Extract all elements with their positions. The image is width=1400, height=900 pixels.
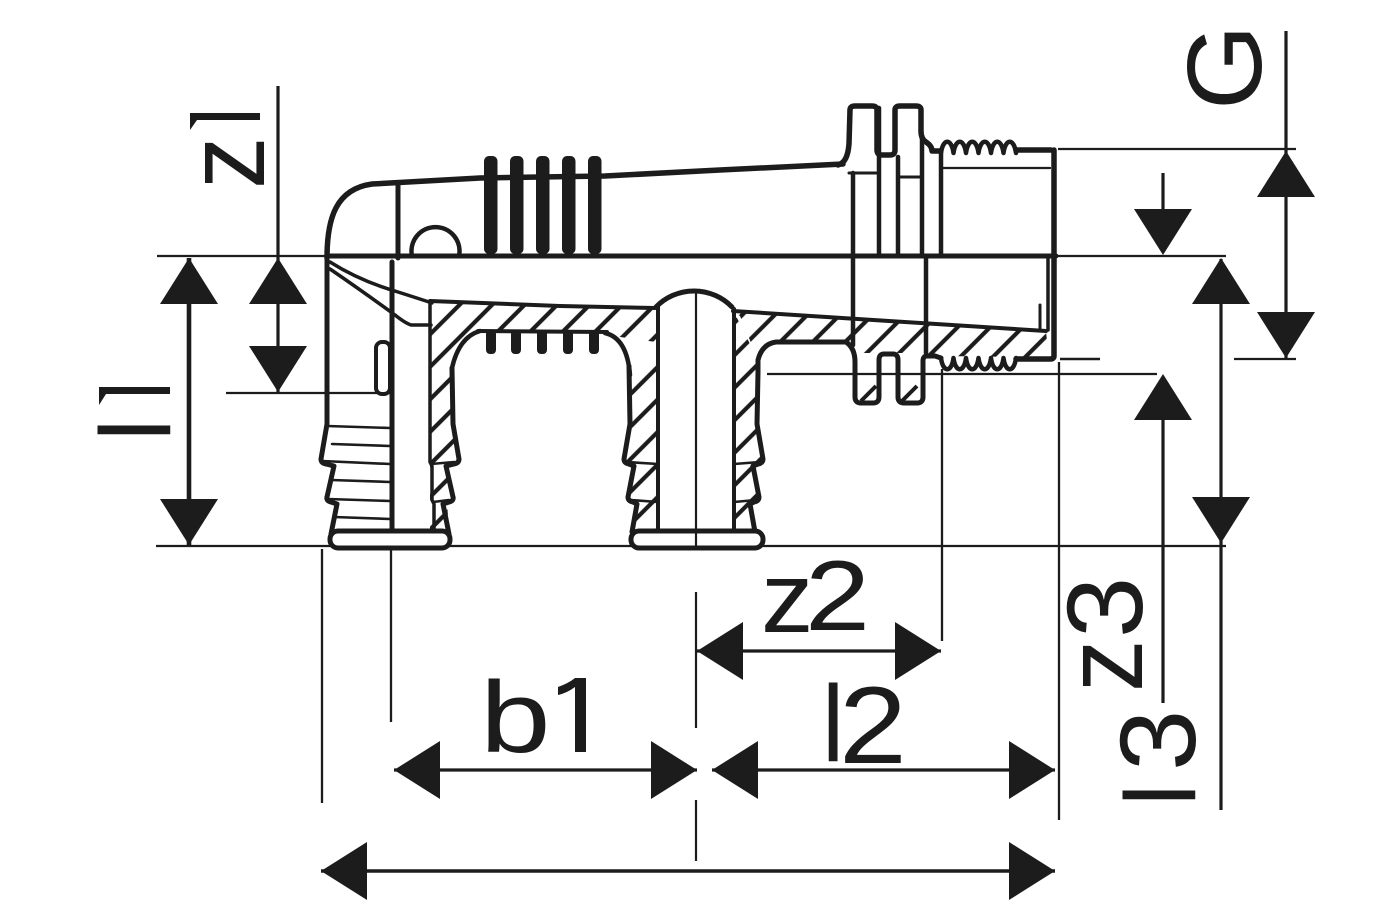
elbow inner transition curve 1 bbox=[330, 262, 432, 303]
body top plate line B thick bbox=[330, 254, 1056, 259]
nut shoulder ledges bbox=[849, 172, 878, 175]
right end edge bbox=[1016, 150, 1054, 359]
z2 dimension line bbox=[697, 649, 941, 652]
extension line B right bbox=[1056, 255, 1226, 257]
overall bottom dimension line bbox=[321, 869, 1055, 873]
left leg bore edge bbox=[430, 304, 434, 532]
teeth to outlet fillet bbox=[605, 333, 630, 375]
left leg barb ring lines bbox=[327, 426, 390, 428]
l3 dimension line bbox=[1219, 259, 1222, 810]
leg inner thick line bbox=[390, 262, 395, 532]
z1 dimension line bbox=[276, 86, 279, 392]
section hatching bbox=[430, 301, 1049, 529]
G arrows bbox=[1257, 151, 1315, 197]
extension line x=942 z2 right bbox=[941, 369, 943, 641]
z2 arrows bbox=[697, 622, 743, 680]
lower castellation outline bbox=[758, 342, 941, 403]
retaining tab bbox=[376, 342, 390, 394]
slot bottom hatch ticks bbox=[861, 386, 917, 401]
extension line x=391 b1 left bbox=[390, 549, 392, 722]
elbow inner transition curve 2 bbox=[330, 269, 431, 325]
union nut prongs bbox=[838, 106, 940, 165]
elbow outer arc and top outline bbox=[327, 164, 843, 258]
bore floor / hatch band top edge bbox=[430, 301, 655, 308]
extension line C bottom reference bbox=[156, 545, 1226, 547]
cavity end step bbox=[1039, 305, 1042, 330]
z1 arrows bbox=[249, 258, 307, 304]
left leg sectioned wall outer edge bbox=[443, 368, 459, 534]
l1 arrows bbox=[160, 258, 218, 304]
nut slot verticals lower bbox=[851, 258, 856, 345]
left leg outer edge with barbs bbox=[321, 258, 337, 534]
bottom outlet collar bbox=[631, 531, 763, 548]
z3 arrows bbox=[1134, 209, 1192, 255]
svg-text:z: z bbox=[1041, 640, 1165, 692]
svg-text:l: l bbox=[1105, 784, 1217, 806]
extension line x=322 overall left bbox=[321, 549, 323, 803]
extension line top of thread (line A) bbox=[1058, 148, 1296, 150]
barb groove teeth bbox=[486, 330, 496, 354]
right end top edge bbox=[1016, 147, 1051, 153]
male thread crest zigzag top bbox=[941, 142, 1016, 153]
bottom outlet left wall outer edge bbox=[624, 366, 637, 532]
overall bottom arrows bbox=[321, 842, 367, 900]
barb teeth baseline bbox=[452, 331, 480, 380]
arrowheads bbox=[160, 151, 1315, 900]
left leg bottom collar bbox=[330, 531, 450, 548]
svg-text:2: 2 bbox=[805, 540, 870, 651]
nut slot verticals upper bbox=[851, 173, 856, 254]
extension line x=1059 right end bbox=[1058, 362, 1060, 820]
G dimension line bbox=[1284, 31, 1287, 358]
svg-text:2: 2 bbox=[839, 664, 907, 787]
b1 arrows bbox=[394, 741, 440, 799]
svg-text:b: b bbox=[480, 661, 551, 774]
l2 dimension line bbox=[712, 768, 1055, 771]
svg-text:3: 3 bbox=[1045, 577, 1166, 638]
elbow joint vertical bbox=[396, 184, 401, 258]
z3 dimension line upper tail bbox=[1161, 173, 1164, 212]
thread root thin line top bbox=[943, 167, 1050, 169]
b1 dimension line bbox=[394, 768, 697, 771]
z3 dimension line lower tail bbox=[1161, 416, 1164, 703]
G lower extension line bbox=[1234, 358, 1296, 360]
svg-text:3: 3 bbox=[1098, 710, 1219, 771]
cavity right wall bbox=[1046, 258, 1050, 330]
svg-text:l: l bbox=[80, 419, 192, 441]
svg-text:G: G bbox=[1165, 24, 1284, 110]
bottom outlet dome bbox=[656, 291, 732, 307]
thread bottom extension tick bbox=[1060, 358, 1100, 361]
extension line B left bbox=[157, 255, 332, 257]
l2 arrows bbox=[712, 741, 758, 799]
bottom outlet right wall outer edge bbox=[750, 372, 763, 532]
thread root / z3 extension line bbox=[767, 373, 1157, 375]
l1 dimension line bbox=[187, 258, 192, 545]
top barb ribs bbox=[484, 156, 602, 354]
center line through collar bbox=[695, 532, 697, 547]
barb ledge lines across sectioned walls bbox=[431, 462, 760, 502]
center line of bottom outlet bbox=[695, 291, 697, 545]
z1 lower extension line bbox=[226, 392, 390, 394]
l3 arrows bbox=[1192, 258, 1250, 304]
male thread crest zigzag bottom bbox=[941, 358, 1016, 369]
screw hole semicircle bbox=[412, 227, 460, 256]
svg-text:z: z bbox=[163, 137, 287, 189]
bottom outlet bore edges bbox=[656, 307, 660, 531]
fitting body bbox=[321, 106, 1056, 548]
